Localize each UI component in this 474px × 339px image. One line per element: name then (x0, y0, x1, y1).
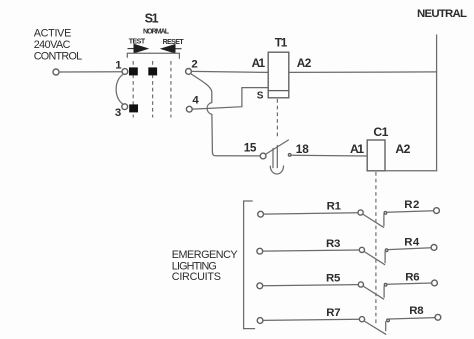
S1 contact block at pin 3 (black square) (129, 104, 138, 112)
svg-text:R1: R1 (327, 201, 342, 213)
contactor C1 body (367, 140, 385, 171)
svg-text:18: 18 (296, 142, 309, 156)
label: EMERGENCY LIGHTING CIRCUITS (172, 249, 238, 283)
svg-text:R3: R3 (326, 238, 340, 250)
S1 pin 2 (186, 58, 198, 74)
svg-text:R8: R8 (409, 305, 423, 317)
row 4 left terminal (257, 318, 263, 324)
S1 contact block center (black square) (148, 67, 157, 75)
row 2 left terminal (257, 248, 263, 254)
svg-text:A1: A1 (350, 142, 364, 156)
contact R7 blade (364, 321, 386, 334)
svg-text:R6: R6 (405, 272, 419, 284)
svg-text:240VAC: 240VAC (34, 39, 71, 51)
wire: S1 pin 4 to T1 S terminal (192, 88, 268, 110)
wire: neutral bus (436, 35, 438, 171)
contact R1 blade (363, 214, 384, 227)
svg-text:S: S (257, 90, 264, 101)
svg-text:C1: C1 (373, 125, 388, 139)
wire R4 (388, 248, 431, 250)
wire R3 (263, 250, 360, 251)
svg-text:4: 4 (192, 95, 199, 107)
contact R1 pivot (358, 210, 363, 215)
svg-text:A1: A1 (252, 56, 266, 70)
wire: contact 18 to C1 A1 (291, 154, 367, 157)
contact R3 blade (364, 251, 385, 264)
S1 linkage dashed line middle (152, 61, 154, 118)
S1 pin 4 (186, 95, 199, 113)
wire: S1 pin 2 to T1 A1 (191, 71, 268, 72)
wire: control input to S1 pin 1 (59, 71, 122, 73)
svg-text:15: 15 (244, 140, 257, 154)
wire R2 (387, 211, 434, 213)
svg-text:R5: R5 (326, 273, 341, 285)
S1 pin 3 (115, 104, 128, 119)
row 3 left terminal (257, 283, 263, 289)
dashed link: T1 to timed contact (276, 99, 278, 138)
svg-text:3: 3 (115, 107, 121, 119)
contact R5 blade (363, 286, 384, 299)
svg-text:CONTROL: CONTROL (34, 51, 83, 63)
S1 linkage dashed line right (170, 61, 172, 118)
timer T1 body (268, 52, 289, 98)
wire R1 (263, 213, 358, 214)
row 4 right terminal (435, 314, 441, 320)
svg-text:A2: A2 (395, 142, 410, 156)
contact R1 fixed contact (384, 212, 387, 226)
timed contact blade (265, 140, 288, 154)
svg-text:S1: S1 (145, 11, 159, 25)
svg-text:ACTIVE: ACTIVE (34, 27, 72, 39)
contact R7 pivot (359, 317, 364, 322)
timed contact dashpot (270, 146, 283, 175)
S1 TEST direction arrow (128, 44, 148, 52)
wire R5 (263, 285, 359, 286)
svg-text:R2: R2 (404, 199, 419, 211)
svg-text:NORMAL: NORMAL (143, 29, 170, 36)
dashed link: C1 to relay contacts (375, 172, 377, 324)
net label: ACTIVE 240VAC CONTROL (34, 27, 83, 62)
timed contact pin 18 (288, 142, 309, 156)
contact R7 fixed contact (386, 319, 390, 331)
svg-text:R7: R7 (326, 307, 340, 319)
timed contact pin 15 (244, 140, 266, 159)
svg-text:R4: R4 (404, 237, 420, 249)
wire: C1 A2 to neutral bus (385, 170, 437, 172)
wire R6 (387, 283, 432, 284)
wire: S1 pin 1 to pin 3 jumper (116, 74, 124, 105)
S1 linkage dashed line left (132, 61, 134, 118)
emergency circuits bracket (244, 201, 255, 329)
contact R3 fixed contact (385, 249, 388, 263)
row 3 right terminal (432, 280, 438, 286)
terminal: control input (53, 69, 59, 75)
contact R5 pivot (358, 282, 363, 287)
S1 travel bracket (127, 53, 179, 58)
row 2 right terminal (431, 245, 437, 251)
svg-text:2: 2 (191, 58, 197, 70)
contact R3 pivot (359, 247, 364, 252)
wire R7 (263, 319, 360, 320)
S1 pin 1 (115, 60, 128, 75)
S1 RESET direction arrow (161, 45, 181, 53)
wire: S1 pin 2 down to timed contact 15 (hop over pin-4 wire) (190, 73, 260, 155)
wire: T1 A2 to neutral bus (289, 71, 437, 74)
svg-text:NEUTRAL: NEUTRAL (417, 8, 467, 20)
row 1 left terminal (258, 211, 264, 217)
svg-text:CIRCUITS: CIRCUITS (172, 271, 221, 283)
wire R8 (390, 318, 436, 319)
S1 contact block at pin 1 (black square) (129, 67, 138, 75)
svg-text:1: 1 (115, 60, 122, 72)
svg-text:A2: A2 (297, 56, 312, 70)
contact R5 fixed contact (384, 284, 387, 298)
row 1 right terminal (434, 208, 440, 214)
svg-text:TEST: TEST (129, 39, 146, 46)
svg-text:T1: T1 (275, 35, 288, 49)
